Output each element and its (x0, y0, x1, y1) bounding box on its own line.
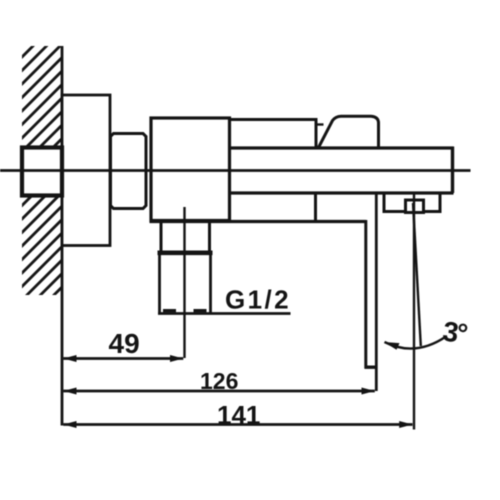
thread chamfer marks (163, 309, 176, 312)
lever front extension line (375, 193, 378, 391)
dim line 49 (63, 357, 183, 360)
handle lever cap (319, 116, 379, 147)
outlet bottom + G1/2 leader (158, 312, 291, 315)
angle arc (385, 337, 447, 349)
dim line 141 (63, 423, 412, 426)
outlet centerline (183, 207, 185, 358)
dim line 126 (63, 390, 375, 393)
wall line (61, 46, 64, 426)
spout bar right edge (451, 147, 454, 194)
svg-text:49: 49 (109, 328, 140, 359)
upper body right edge (315, 118, 318, 148)
lever axis reference line (413, 193, 415, 430)
outlet tube (158, 255, 161, 314)
spout bar top (230, 146, 454, 149)
wall hatching (0, 0, 80, 369)
tilted lever line 3deg (413, 203, 421, 346)
lever rod left edge (364, 220, 367, 369)
main valve block (151, 118, 230, 221)
body step line (314, 193, 317, 222)
arc arrowhead (384, 342, 400, 350)
outlet divider (158, 251, 213, 256)
hex nut N2 (111, 134, 147, 209)
spout bar bottom (230, 191, 454, 194)
pivot bracket (384, 193, 440, 212)
escutcheon plate (62, 95, 110, 246)
upper body top line (230, 118, 317, 121)
horizontal centerline (0, 169, 471, 172)
pivot square (406, 200, 424, 213)
handle notch tick (315, 123, 324, 125)
svg-text:141: 141 (217, 400, 260, 430)
body bottom line (150, 220, 367, 223)
wall nut N1 (22, 148, 62, 196)
svg-text:G1/2: G1/2 (225, 285, 291, 315)
lever rod bottom cap (365, 366, 378, 369)
outlet stub under block (160, 222, 163, 252)
svg-text:126: 126 (200, 368, 238, 394)
